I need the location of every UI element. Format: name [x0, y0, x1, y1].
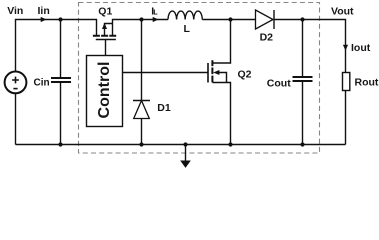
ground: [185, 145, 187, 161]
node dot: L/Q2 drain: [228, 17, 232, 21]
Q1 channel bars: [93, 35, 116, 37]
node dot: Cout bottom: [300, 142, 304, 146]
svg-text:Vout: Vout: [331, 5, 354, 17]
node dot: Cin bottom: [58, 142, 62, 146]
wire: D1 top from node: [141, 20, 143, 101]
wire: Cout top: [302, 20, 304, 77]
wire and arrow IL: [142, 19, 169, 21]
node dot: ground: [183, 142, 187, 146]
svg-text:Q2: Q2: [238, 68, 252, 80]
diode D1 (cathode up): [133, 101, 150, 119]
svg-text:Vin: Vin: [7, 5, 23, 17]
wire: Cin top: [60, 20, 62, 78]
node dot: D1 bottom: [139, 142, 143, 146]
source plus sign: [12, 77, 19, 84]
svg-text:Iin: Iin: [38, 5, 50, 17]
arrow Iout on right wire: [343, 45, 348, 51]
Q1 gate line: [96, 39, 116, 41]
svg-text:D2: D2: [260, 31, 274, 43]
wire: Rout bottom to rail: [345, 91, 347, 145]
Q1 source lead: [113, 20, 142, 36]
Q1 body arrow shaft and source tie: [105, 24, 113, 36]
arrow Iin on top wire: [41, 17, 47, 22]
wire: Cout bottom: [302, 82, 304, 145]
node dot: Cin top: [58, 17, 62, 21]
svg-text:L: L: [153, 10, 158, 17]
wire: D2 cathode to Vout corner and down to Rout: [274, 20, 346, 73]
svg-text:Q1: Q1: [98, 5, 112, 17]
control block box: [87, 56, 123, 127]
svg-text:Rout: Rout: [355, 77, 379, 89]
svg-text:Control: Control: [96, 62, 113, 119]
Q2 body tie: [219, 73, 227, 83]
svg-text:Cin: Cin: [34, 77, 50, 88]
Q2 channel bars: [211, 60, 213, 82]
svg-text:L: L: [184, 23, 191, 35]
wire: top-left from Vin corner to Q1 drain: [16, 20, 97, 72]
Q2 gate bar: [207, 63, 209, 83]
node dot: Q1/L/D1: [139, 17, 143, 21]
wire: D1 bottom to rail: [141, 119, 143, 145]
resistor Rout: [343, 73, 350, 91]
svg-text:D1: D1: [157, 102, 171, 114]
capacitor Cout plates: [293, 77, 313, 81]
Q2 drain lead: [212, 20, 230, 64]
transistor Q2 (NMOS, vertical): [208, 20, 231, 145]
transistor Q1 (PMOS, horizontal): [93, 20, 142, 56]
capacitor Cin plates: [51, 78, 71, 82]
dashed converter boundary box: [79, 3, 320, 154]
Q2 body arrowhead: [213, 70, 219, 75]
wire: Cin bottom: [60, 83, 62, 145]
inductor L: [168, 11, 202, 19]
source minus sign: [13, 88, 17, 90]
wire: source bottom to rail: [15, 93, 17, 145]
svg-text:Iout: Iout: [351, 42, 371, 54]
wire: L to D2 anode: [202, 19, 255, 21]
node dot: Cout top: [300, 17, 304, 21]
node dot: Q2 source bottom: [228, 142, 232, 146]
Q1 body arrowhead: [102, 23, 107, 29]
wire: control to Q2 gate: [123, 72, 209, 74]
source V circle: [5, 72, 27, 94]
diode D2: [256, 10, 275, 29]
Q1 gate lead to control: [105, 40, 107, 56]
bottom rail: [16, 144, 346, 146]
svg-text:Cout: Cout: [267, 78, 291, 90]
Q2 source lead: [212, 83, 230, 145]
